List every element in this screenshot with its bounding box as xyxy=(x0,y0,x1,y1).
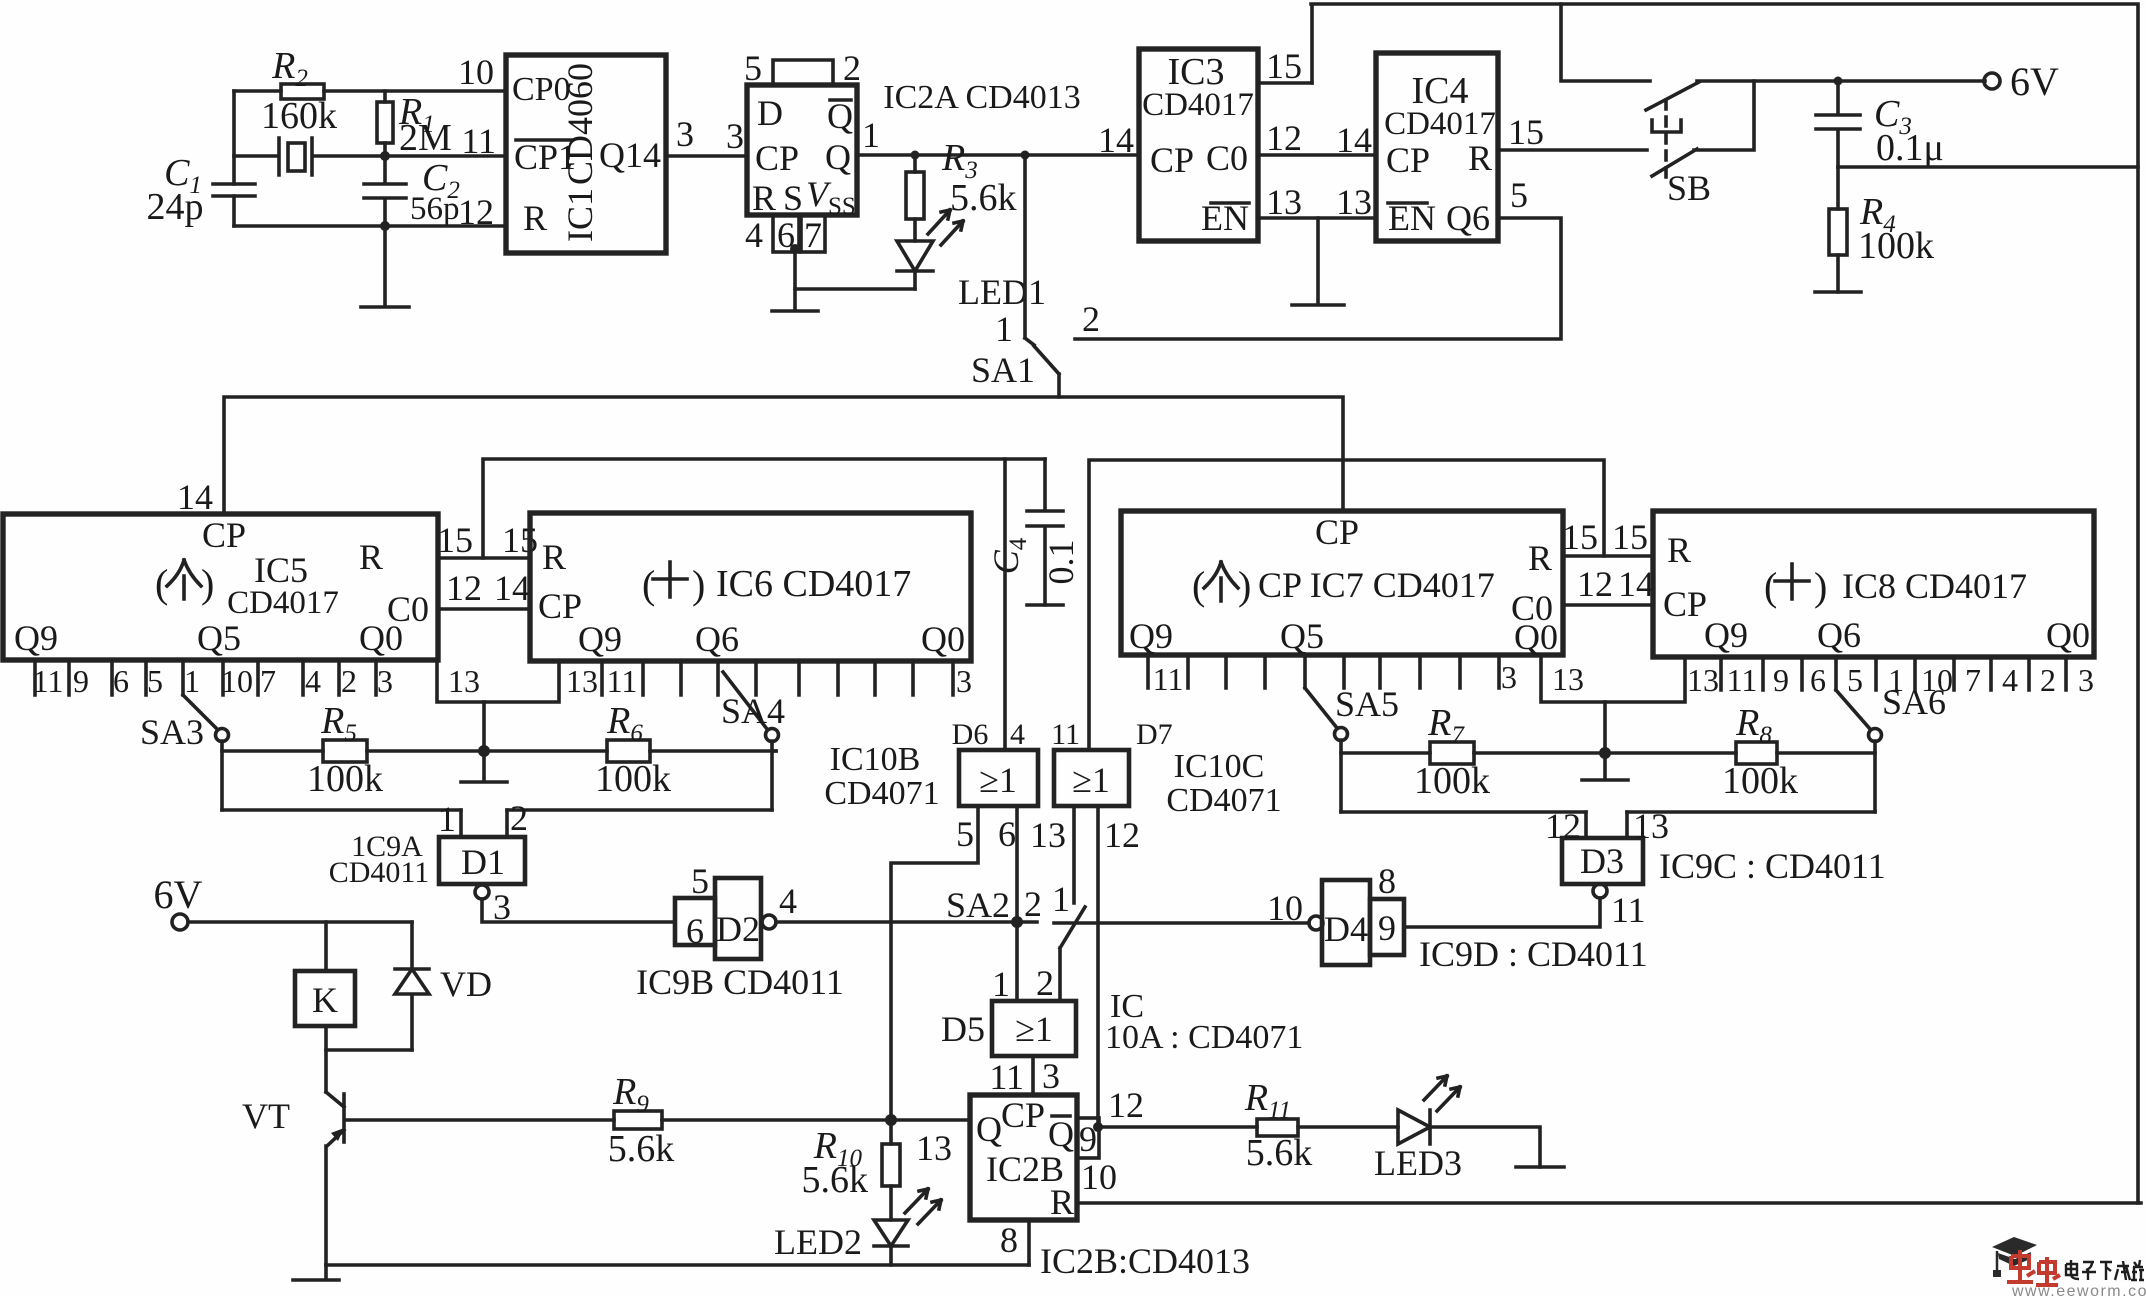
svg-text:15: 15 xyxy=(1508,112,1544,152)
LED2 flash arrows xyxy=(905,1189,941,1224)
ground (R5/R6) xyxy=(461,751,507,782)
svg-text:(: ( xyxy=(642,562,655,607)
D1 input pins xyxy=(461,810,507,837)
svg-text:5: 5 xyxy=(691,861,709,901)
wire: IC5 C0 pin 12 to IC6 CP pin 14 xyxy=(438,607,530,611)
svg-text:9: 9 xyxy=(1773,662,1789,698)
svg-text:SA4: SA4 xyxy=(721,691,785,731)
flip-flop IC2A box xyxy=(747,85,857,215)
wire: D2 out to SA2 contact 2 / D6 pin 6 xyxy=(776,920,1037,924)
svg-text:Q9: Q9 xyxy=(1704,615,1748,655)
D4 pin 9 input box xyxy=(1370,899,1404,955)
NAND gate D3 (IC9C) box xyxy=(1562,838,1643,884)
svg-text:5.6k: 5.6k xyxy=(802,1159,869,1201)
svg-text:C0: C0 xyxy=(387,589,429,629)
svg-text:1: 1 xyxy=(184,663,200,699)
svg-text:CD4071: CD4071 xyxy=(1166,782,1281,819)
svg-text:SA6: SA6 xyxy=(1882,682,1946,722)
node: junction Qbar/D7.12 xyxy=(1093,1122,1103,1132)
NAND gate D2 (IC9B) input box xyxy=(675,898,715,945)
svg-text:15: 15 xyxy=(1562,517,1598,557)
svg-text:3: 3 xyxy=(956,663,972,699)
node: junction R5/R6/ground xyxy=(478,745,490,757)
svg-text:4: 4 xyxy=(2002,662,2018,698)
svg-text:6: 6 xyxy=(686,911,704,951)
svg-text:6: 6 xyxy=(1810,662,1826,698)
svg-text:Q: Q xyxy=(976,1109,1002,1149)
D1 output bubble xyxy=(475,885,489,899)
wire: reset bus B1 (IC5/IC6 R to D6 out and C4) xyxy=(483,459,1045,558)
svg-text:15: 15 xyxy=(437,520,473,560)
svg-text:Q9: Q9 xyxy=(1129,616,1173,656)
svg-text:IC2A CD4013: IC2A CD4013 xyxy=(883,79,1080,116)
svg-text:SB: SB xyxy=(1667,168,1711,208)
svg-text:1: 1 xyxy=(1052,879,1070,919)
capacitor C1 xyxy=(213,184,255,196)
svg-text:D: D xyxy=(757,93,783,133)
svg-text:3: 3 xyxy=(726,116,744,156)
wire: bracket to R7/R8 junction xyxy=(1603,702,1607,753)
svg-text:IC1: IC1 xyxy=(560,188,600,242)
resistor R2 xyxy=(281,84,324,99)
wire: IC5 R / IC6 R pins xyxy=(438,556,530,560)
svg-text:CP: CP xyxy=(1386,140,1430,180)
svg-text:IC5: IC5 xyxy=(254,550,308,590)
svg-text:100k: 100k xyxy=(307,758,383,800)
D6 output pin 4 wire (up to reset bus B1) xyxy=(1003,459,1007,750)
svg-text:1: 1 xyxy=(862,115,880,155)
switch SA3 arm xyxy=(183,695,217,729)
svg-text:2M: 2M xyxy=(399,117,452,159)
svg-text:5.6k: 5.6k xyxy=(608,1128,675,1170)
svg-text:R: R xyxy=(542,537,566,577)
svg-text:www.eeworm.com: www.eeworm.com xyxy=(2011,1283,2146,1296)
svg-text:7: 7 xyxy=(260,663,276,699)
svg-text:Q6: Q6 xyxy=(695,619,739,659)
svg-text:D4: D4 xyxy=(1324,909,1368,949)
svg-text:8: 8 xyxy=(1378,861,1396,901)
svg-text:CP: CP xyxy=(1001,1095,1045,1135)
switch SA1 fixed contact 1 (from Q net) xyxy=(1025,155,1034,345)
node: junction 6V/C3 xyxy=(1834,77,1843,86)
svg-text:IC9C : CD4011: IC9C : CD4011 xyxy=(1659,846,1886,886)
node: junction D2 out / D6.6 / D5.1 xyxy=(1011,916,1023,928)
svg-text:0.1μ: 0.1μ xyxy=(1876,127,1944,169)
svg-text:13: 13 xyxy=(1030,815,1066,855)
wire: IC7 R / IC8 R pins xyxy=(1563,554,1653,558)
svg-text:IC9B CD4011: IC9B CD4011 xyxy=(636,962,844,1002)
svg-text:12: 12 xyxy=(446,568,482,608)
resistor R10 xyxy=(889,1120,893,1220)
svg-text:11: 11 xyxy=(1611,890,1646,930)
terminal 6V (top right) xyxy=(1984,73,2000,89)
svg-text:2: 2 xyxy=(2040,662,2056,698)
svg-text:11: 11 xyxy=(989,1057,1024,1097)
svg-text:2: 2 xyxy=(843,48,861,88)
svg-text:CD4060: CD4060 xyxy=(560,63,600,185)
pin 8 wire xyxy=(1027,1220,1031,1265)
wire: 6V to relay and VD xyxy=(188,920,412,924)
resistor R4 xyxy=(1836,167,1840,292)
svg-text:100k: 100k xyxy=(1414,760,1490,802)
relay K box xyxy=(295,971,355,1026)
svg-text:D3: D3 xyxy=(1580,841,1624,881)
svg-text:3: 3 xyxy=(1042,1056,1060,1096)
counter IC7 box xyxy=(1121,511,1563,655)
svg-text:Q9: Q9 xyxy=(14,618,58,658)
svg-text:(: ( xyxy=(155,561,168,606)
wire: IC5 pin13 / IC6 pin13 bracket xyxy=(437,660,559,702)
svg-text:D7: D7 xyxy=(1136,718,1173,751)
svg-text:Q: Q xyxy=(825,137,851,177)
ground (LED3) xyxy=(1516,1165,1564,1169)
wire: bracket to R5/R6 junction xyxy=(482,702,486,751)
svg-text:SA5: SA5 xyxy=(1335,684,1399,724)
svg-text:): ) xyxy=(1238,563,1251,608)
svg-text:14: 14 xyxy=(1336,120,1372,160)
svg-text:1: 1 xyxy=(438,799,456,839)
svg-text:14: 14 xyxy=(177,477,213,517)
switch SA6 contact circle xyxy=(1869,729,1882,742)
D7 output pin 13 wire (SA2 contact 1) xyxy=(1072,806,1076,903)
svg-text:2: 2 xyxy=(341,663,357,699)
wire: relay K top lead xyxy=(324,922,328,971)
svg-text:LED3: LED3 xyxy=(1374,1143,1462,1183)
svg-text:S: S xyxy=(783,178,803,218)
svg-text:C0: C0 xyxy=(1206,138,1248,178)
svg-text:SA1: SA1 xyxy=(971,350,1035,390)
svg-text:6: 6 xyxy=(998,814,1016,854)
wire: IC7 C0 pin 12 to IC8 CP pin 14 xyxy=(1563,603,1653,607)
svg-text:6V: 6V xyxy=(154,872,203,917)
ground (oscillator) xyxy=(361,226,409,307)
LED1 flash arrows xyxy=(928,210,963,245)
svg-text:5: 5 xyxy=(1847,662,1863,698)
svg-text:5: 5 xyxy=(147,663,163,699)
ground (VT emitter) xyxy=(293,1265,339,1280)
watermark chongchong red text xyxy=(2007,1250,2060,1285)
switch SA6 arm xyxy=(1836,690,1870,729)
svg-text:IC9D : CD4011: IC9D : CD4011 xyxy=(1419,934,1648,974)
flip-flop IC2B box xyxy=(970,1095,1077,1220)
svg-text:56p: 56p xyxy=(410,191,460,227)
svg-text:CP: CP xyxy=(1663,584,1707,624)
svg-text:Q0: Q0 xyxy=(1514,617,1558,657)
svg-text:12: 12 xyxy=(1577,564,1613,604)
D2 output bubble xyxy=(762,915,776,929)
svg-text:11: 11 xyxy=(1153,661,1184,697)
IC5 output stubs xyxy=(35,660,376,695)
svg-text:Q6: Q6 xyxy=(1817,615,1861,655)
svg-text:K: K xyxy=(312,980,338,1020)
LED3 xyxy=(1398,1110,1430,1144)
svg-text:13: 13 xyxy=(916,1128,952,1168)
svg-text:CD4017: CD4017 xyxy=(1384,106,1496,142)
svg-text:12: 12 xyxy=(458,192,494,232)
counter IC5 box xyxy=(3,514,438,660)
wire: IC2A Q pin 1 to IC3 CP pin 14 xyxy=(857,153,1139,157)
svg-text:11: 11 xyxy=(607,663,638,699)
VT emitter arrow xyxy=(331,1128,344,1141)
svg-text:13: 13 xyxy=(448,663,480,699)
resistor R9 xyxy=(614,1111,662,1129)
svg-text:IC10B: IC10B xyxy=(830,741,921,778)
svg-text:R: R xyxy=(1468,138,1492,178)
watermark graduation cap xyxy=(1992,1237,2037,1256)
wire: VT base to R9 xyxy=(347,1118,614,1122)
wire: IC1 Q14 to IC2A CP xyxy=(666,154,747,158)
svg-text:D5: D5 xyxy=(941,1009,985,1049)
wire: IC7 pin13 / IC8 pin13 bracket xyxy=(1541,655,1685,702)
svg-text:5: 5 xyxy=(956,814,974,854)
svg-text:10: 10 xyxy=(458,52,494,92)
svg-text:(: ( xyxy=(1192,563,1205,608)
pins 4,6,7 boxes of IC2A xyxy=(773,215,799,252)
svg-text:13: 13 xyxy=(1266,182,1302,222)
svg-text:CP: CP xyxy=(538,586,582,626)
wire: D1 out to D2 in xyxy=(482,899,675,922)
svg-text:≥1: ≥1 xyxy=(1072,760,1110,800)
node: junction R1/crystal xyxy=(380,151,390,161)
svg-text:14: 14 xyxy=(494,568,530,608)
svg-text:(: ( xyxy=(1764,564,1777,609)
svg-text:11: 11 xyxy=(461,121,496,161)
D3 output bubble xyxy=(1593,884,1607,898)
svg-text:LED2: LED2 xyxy=(774,1222,862,1262)
node: IC2A ground junction xyxy=(790,244,800,254)
svg-text:CD4011: CD4011 xyxy=(329,856,430,889)
svg-text:12: 12 xyxy=(1104,815,1140,855)
svg-text:7: 7 xyxy=(1965,662,1981,698)
svg-text:Q14: Q14 xyxy=(599,135,661,175)
wire: IC2A Vss to ground and LED1 cathode xyxy=(795,252,915,289)
svg-text:2: 2 xyxy=(1082,299,1100,339)
svg-text:D6: D6 xyxy=(952,718,989,751)
svg-text:24p: 24p xyxy=(147,186,204,228)
svg-text:10A : CD4071: 10A : CD4071 xyxy=(1105,1019,1303,1056)
svg-text:10: 10 xyxy=(1267,888,1303,928)
svg-text:Q5: Q5 xyxy=(1280,616,1324,656)
wire: D3 out to D4 pin 9 xyxy=(1404,898,1600,927)
wire: SA6 bus to D3 pin 13 xyxy=(1627,810,1875,814)
wire: IC3 C0 pin 12 to IC4 CP pin 14 xyxy=(1258,153,1376,157)
wire: SA5 bus to D3 pin 12 xyxy=(1341,810,1586,814)
svg-text:10: 10 xyxy=(221,663,253,699)
wire: oscillator top net (R2 / CP0 pin 10) xyxy=(234,89,506,93)
svg-text:4: 4 xyxy=(745,215,763,255)
svg-text:3: 3 xyxy=(2078,662,2094,698)
capacitor C2 xyxy=(364,156,406,226)
IC6 output stubs xyxy=(602,661,953,695)
svg-text:Q0: Q0 xyxy=(2046,615,2090,655)
svg-text:IC10C: IC10C xyxy=(1174,748,1265,785)
OR gate D7 (IC10C) box xyxy=(1054,750,1129,806)
svg-text:14: 14 xyxy=(1618,564,1654,604)
counter IC3 box xyxy=(1139,49,1258,241)
svg-text:9: 9 xyxy=(73,663,89,699)
switch SA4 arm xyxy=(723,672,767,729)
OR gate D5 (IC10A) box xyxy=(992,1001,1076,1056)
wire: IC3 EN to IC4 EN xyxy=(1258,216,1376,220)
svg-text:11: 11 xyxy=(1727,662,1758,698)
wire: 6V rail from top bus xyxy=(1561,4,1985,81)
svg-text:CP: CP xyxy=(1150,140,1194,180)
node: junction C2/ground xyxy=(380,221,390,231)
svg-text:IC8 CD4017: IC8 CD4017 xyxy=(1842,566,2027,606)
resistor R3 xyxy=(913,155,917,241)
wire: crystal row (CP1 pin 11 net) xyxy=(234,154,506,158)
svg-text:Q9: Q9 xyxy=(578,619,622,659)
node: junction R7/R8/ground xyxy=(1599,747,1611,759)
svg-text:2: 2 xyxy=(1024,884,1042,924)
D6 input pin 6 wire (down to D5 pin 1) xyxy=(1015,806,1019,1001)
svg-text:CP IC7 CD4017: CP IC7 CD4017 xyxy=(1258,565,1495,605)
svg-text:CD4017: CD4017 xyxy=(227,585,339,621)
svg-text:SA3: SA3 xyxy=(140,712,204,752)
pushbutton SB upper pole xyxy=(1646,82,1699,110)
D5 output wire to IC2B CP xyxy=(1031,1056,1035,1095)
wire: R11 to LED3 xyxy=(1298,1125,1398,1129)
D6 input pin 5 wire xyxy=(891,806,978,1120)
capacitor C4 xyxy=(1027,459,1063,605)
capacitor C3 xyxy=(1816,81,1860,167)
svg-text:5: 5 xyxy=(1510,175,1528,215)
svg-text:Q: Q xyxy=(827,96,853,136)
wire: lower NAND bus left (SA3 to D1.1) xyxy=(222,808,461,812)
wire: bottom return (emitter to IC2B pin 8) xyxy=(326,1263,1029,1267)
wire: relay K bottom to VT collector xyxy=(324,1026,328,1092)
svg-text:4: 4 xyxy=(779,881,797,921)
svg-text:R: R xyxy=(1667,530,1691,570)
NAND gate D2 main box xyxy=(715,878,761,959)
wire: SA3 to R5 and lower NAND bus xyxy=(220,741,224,810)
wire: R7/R8 row xyxy=(1341,751,1875,755)
svg-text:5.6k: 5.6k xyxy=(950,177,1017,219)
LED3 flash arrows xyxy=(1424,1076,1460,1111)
ground (IC2A) xyxy=(772,289,818,311)
svg-text:CD4017: CD4017 xyxy=(1142,87,1254,123)
wire: reset bus B2 (D7 pin 11 to IC7/IC8 R) xyxy=(1089,460,1604,750)
svg-text:LED1: LED1 xyxy=(958,272,1046,312)
svg-text:CP: CP xyxy=(755,138,799,178)
svg-text:R: R xyxy=(1050,1182,1074,1222)
node: junction R9/R10/D6.5/Q xyxy=(885,1114,897,1126)
svg-text:Q5: Q5 xyxy=(197,618,241,658)
wire: IC4 R pin 15 to SB xyxy=(1498,148,1647,152)
LED2 xyxy=(874,1220,908,1265)
svg-text:D1: D1 xyxy=(461,842,505,882)
svg-text:3: 3 xyxy=(377,663,393,699)
svg-text:Q: Q xyxy=(1048,1114,1074,1154)
wire: Qbar to R11 xyxy=(1099,1125,1257,1129)
switch SA4 contact circle xyxy=(766,729,779,742)
transistor VT xyxy=(326,1092,344,1107)
switch SA2 arm xyxy=(1060,907,1085,1001)
svg-text:6V: 6V xyxy=(2010,59,2059,104)
svg-text:6: 6 xyxy=(113,663,129,699)
svg-text:9: 9 xyxy=(1378,908,1396,948)
LED1 xyxy=(897,241,933,289)
svg-text:5: 5 xyxy=(744,48,762,88)
wire: SA5 to R7 and lower bus xyxy=(1339,740,1343,812)
svg-text:): ) xyxy=(692,562,705,607)
svg-text:VD: VD xyxy=(440,964,492,1004)
pushbutton SB actuator xyxy=(1652,120,1681,132)
ground (EN pins) xyxy=(1292,218,1344,305)
IC1 CD4060 box xyxy=(506,55,666,253)
wire: IC2B R pin 10 to right border reset bus xyxy=(1077,1201,2141,1205)
svg-text:2: 2 xyxy=(1036,963,1054,1003)
wire: clock bus A from SA1 to IC5 CP and IC7 CP xyxy=(224,397,1343,514)
svg-text:CP: CP xyxy=(1315,512,1359,552)
IC7 output stubs xyxy=(1148,655,1499,688)
svg-text:3: 3 xyxy=(676,114,694,154)
wire: IC3 pin 15 stub xyxy=(1258,81,1312,85)
svg-text:R: R xyxy=(1528,538,1552,578)
node: junction Q/R3 xyxy=(911,151,920,160)
wire: left branch down to C1 xyxy=(232,91,236,226)
svg-text:100k: 100k xyxy=(1722,760,1798,802)
svg-text:D2: D2 xyxy=(716,909,760,949)
pin 9 stub box (Qbar) xyxy=(1077,1118,1099,1158)
resistor R8 xyxy=(1736,742,1777,764)
svg-text:0.1: 0.1 xyxy=(1041,540,1081,585)
svg-text:5.6k: 5.6k xyxy=(1246,1132,1313,1174)
NAND gate D4 (IC9D) main box xyxy=(1322,880,1370,965)
OR gate D6 (IC10B) box xyxy=(959,750,1038,806)
svg-text:13: 13 xyxy=(1552,661,1584,697)
D4 output bubble xyxy=(1309,916,1323,930)
resistor R6 xyxy=(607,740,650,762)
D7 input pin 12 wire (down to IC2B Qbar net) xyxy=(1096,806,1100,1127)
svg-text:1: 1 xyxy=(992,964,1010,1004)
svg-text:R: R xyxy=(359,537,383,577)
svg-text:R: R xyxy=(752,178,776,218)
svg-text:100k: 100k xyxy=(1858,225,1934,267)
switch SA3 contact circle xyxy=(216,729,229,742)
resistor R7 xyxy=(1430,742,1474,764)
svg-text:14: 14 xyxy=(1098,120,1134,160)
diode VD xyxy=(395,922,429,1050)
ground (R7/R8) xyxy=(1582,753,1628,780)
svg-text:11: 11 xyxy=(33,663,64,699)
node: junction Q/SA1 xyxy=(1021,151,1030,160)
ground (R4) xyxy=(1815,290,1861,294)
svg-text:10: 10 xyxy=(1081,1157,1117,1197)
terminal 6V (left) xyxy=(172,914,188,930)
svg-text:): ) xyxy=(1814,564,1827,609)
pushbutton SB lower pole xyxy=(1652,81,1754,176)
svg-text:3: 3 xyxy=(1501,659,1517,695)
svg-text:12: 12 xyxy=(1108,1085,1144,1125)
svg-text:R: R xyxy=(523,198,547,238)
resistor R5 xyxy=(323,740,367,762)
svg-text:4: 4 xyxy=(1010,718,1025,751)
switch SA5 arm xyxy=(1305,688,1337,728)
switch SA1 arm xyxy=(1034,346,1059,397)
watermark site name xyxy=(2066,1260,2144,1280)
wire: reset node to right border xyxy=(1838,165,2138,169)
ground (C4) xyxy=(1027,603,1063,607)
counter IC4 box xyxy=(1376,53,1498,241)
wire: SA1 contact 2 to IC4 Q6 pin 5 xyxy=(1075,218,1561,339)
svg-text:7: 7 xyxy=(804,215,822,255)
svg-text:15: 15 xyxy=(1266,46,1302,86)
svg-text:Q0: Q0 xyxy=(921,619,965,659)
svg-text:≥1: ≥1 xyxy=(1015,1009,1053,1049)
svg-text:13: 13 xyxy=(566,663,598,699)
svg-text:160k: 160k xyxy=(261,95,337,137)
